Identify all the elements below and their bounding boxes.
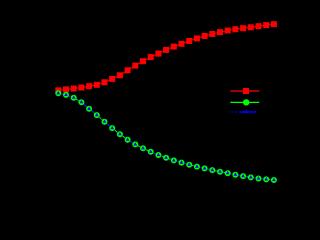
blue series triangle markers (57, 91, 276, 181)
green series circle markers (55, 90, 277, 183)
legend entry red: line and square (230, 88, 259, 94)
blue series dash-dot line (58, 93, 274, 180)
red series line (58, 24, 274, 90)
legend entry green: line and circle (230, 99, 259, 105)
green series line (58, 93, 274, 180)
red series square markers (55, 21, 277, 93)
legend entry blue: dash-dot line and triangle (230, 110, 260, 114)
